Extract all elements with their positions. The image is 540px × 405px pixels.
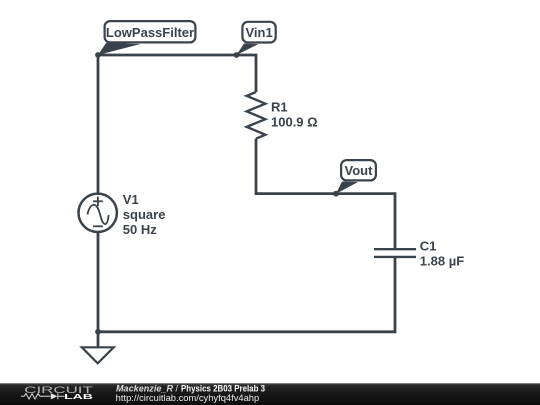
svg-text:square: square (123, 207, 166, 222)
svg-text:LowPassFilter: LowPassFilter (106, 25, 194, 40)
svg-text:Vin1: Vin1 (245, 25, 272, 40)
svg-text:LAB: LAB (64, 392, 94, 401)
svg-text:50 Hz: 50 Hz (123, 222, 157, 237)
svg-text:1.88 µF: 1.88 µF (420, 253, 464, 268)
svg-text:C1: C1 (420, 238, 437, 253)
svg-text:Vout: Vout (345, 163, 374, 178)
svg-text:R1: R1 (271, 99, 288, 114)
svg-text:V1: V1 (123, 192, 139, 207)
svg-text:Mackenzie_R: Mackenzie_R (116, 383, 174, 393)
svg-text:Physics 2B03 Prelab 3: Physics 2B03 Prelab 3 (181, 383, 265, 393)
svg-text:100.9 Ω: 100.9 Ω (271, 114, 318, 129)
svg-text:http://circuitlab.com/cyhyfq4f: http://circuitlab.com/cyhyfq4fv4ahp (116, 393, 260, 403)
